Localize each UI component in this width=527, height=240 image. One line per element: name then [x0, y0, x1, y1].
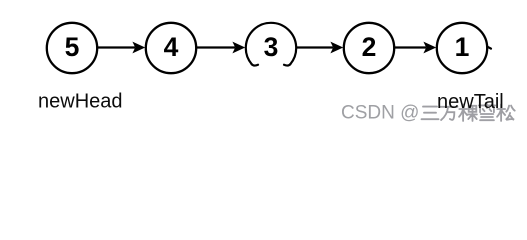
wire stub right of node 1 [488, 47, 491, 49]
svg-text:2: 2 [362, 32, 377, 62]
node 4 circle [146, 23, 196, 73]
wire: arrow 2 to 1 [395, 42, 436, 54]
svg-text:1: 1 [455, 32, 470, 62]
svg-text:5: 5 [65, 32, 80, 62]
node 2 circle [344, 23, 394, 73]
三 [422, 107, 439, 120]
node 1 circle [437, 23, 487, 73]
svg-text:4: 4 [164, 32, 179, 62]
svg-text:3: 3 [264, 32, 279, 62]
wire: arrow 4 to 3 [197, 42, 245, 54]
svg-text:newHead: newHead [38, 91, 123, 113]
wire: arrow 5 to 4 [98, 42, 145, 54]
svg-text:newTail: newTail [437, 91, 504, 113]
松 [497, 104, 515, 121]
wire: arrow 3 to 2 [297, 42, 343, 54]
万 [441, 107, 458, 120]
watermark CSDN @三万棵雪松 [341, 102, 515, 123]
svg-text:CSDN @: CSDN @ [341, 102, 419, 123]
node 3 circle (open at bottom) [246, 23, 296, 66]
棵 [459, 104, 477, 121]
雪 [479, 104, 495, 120]
node 5 circle [47, 23, 97, 73]
